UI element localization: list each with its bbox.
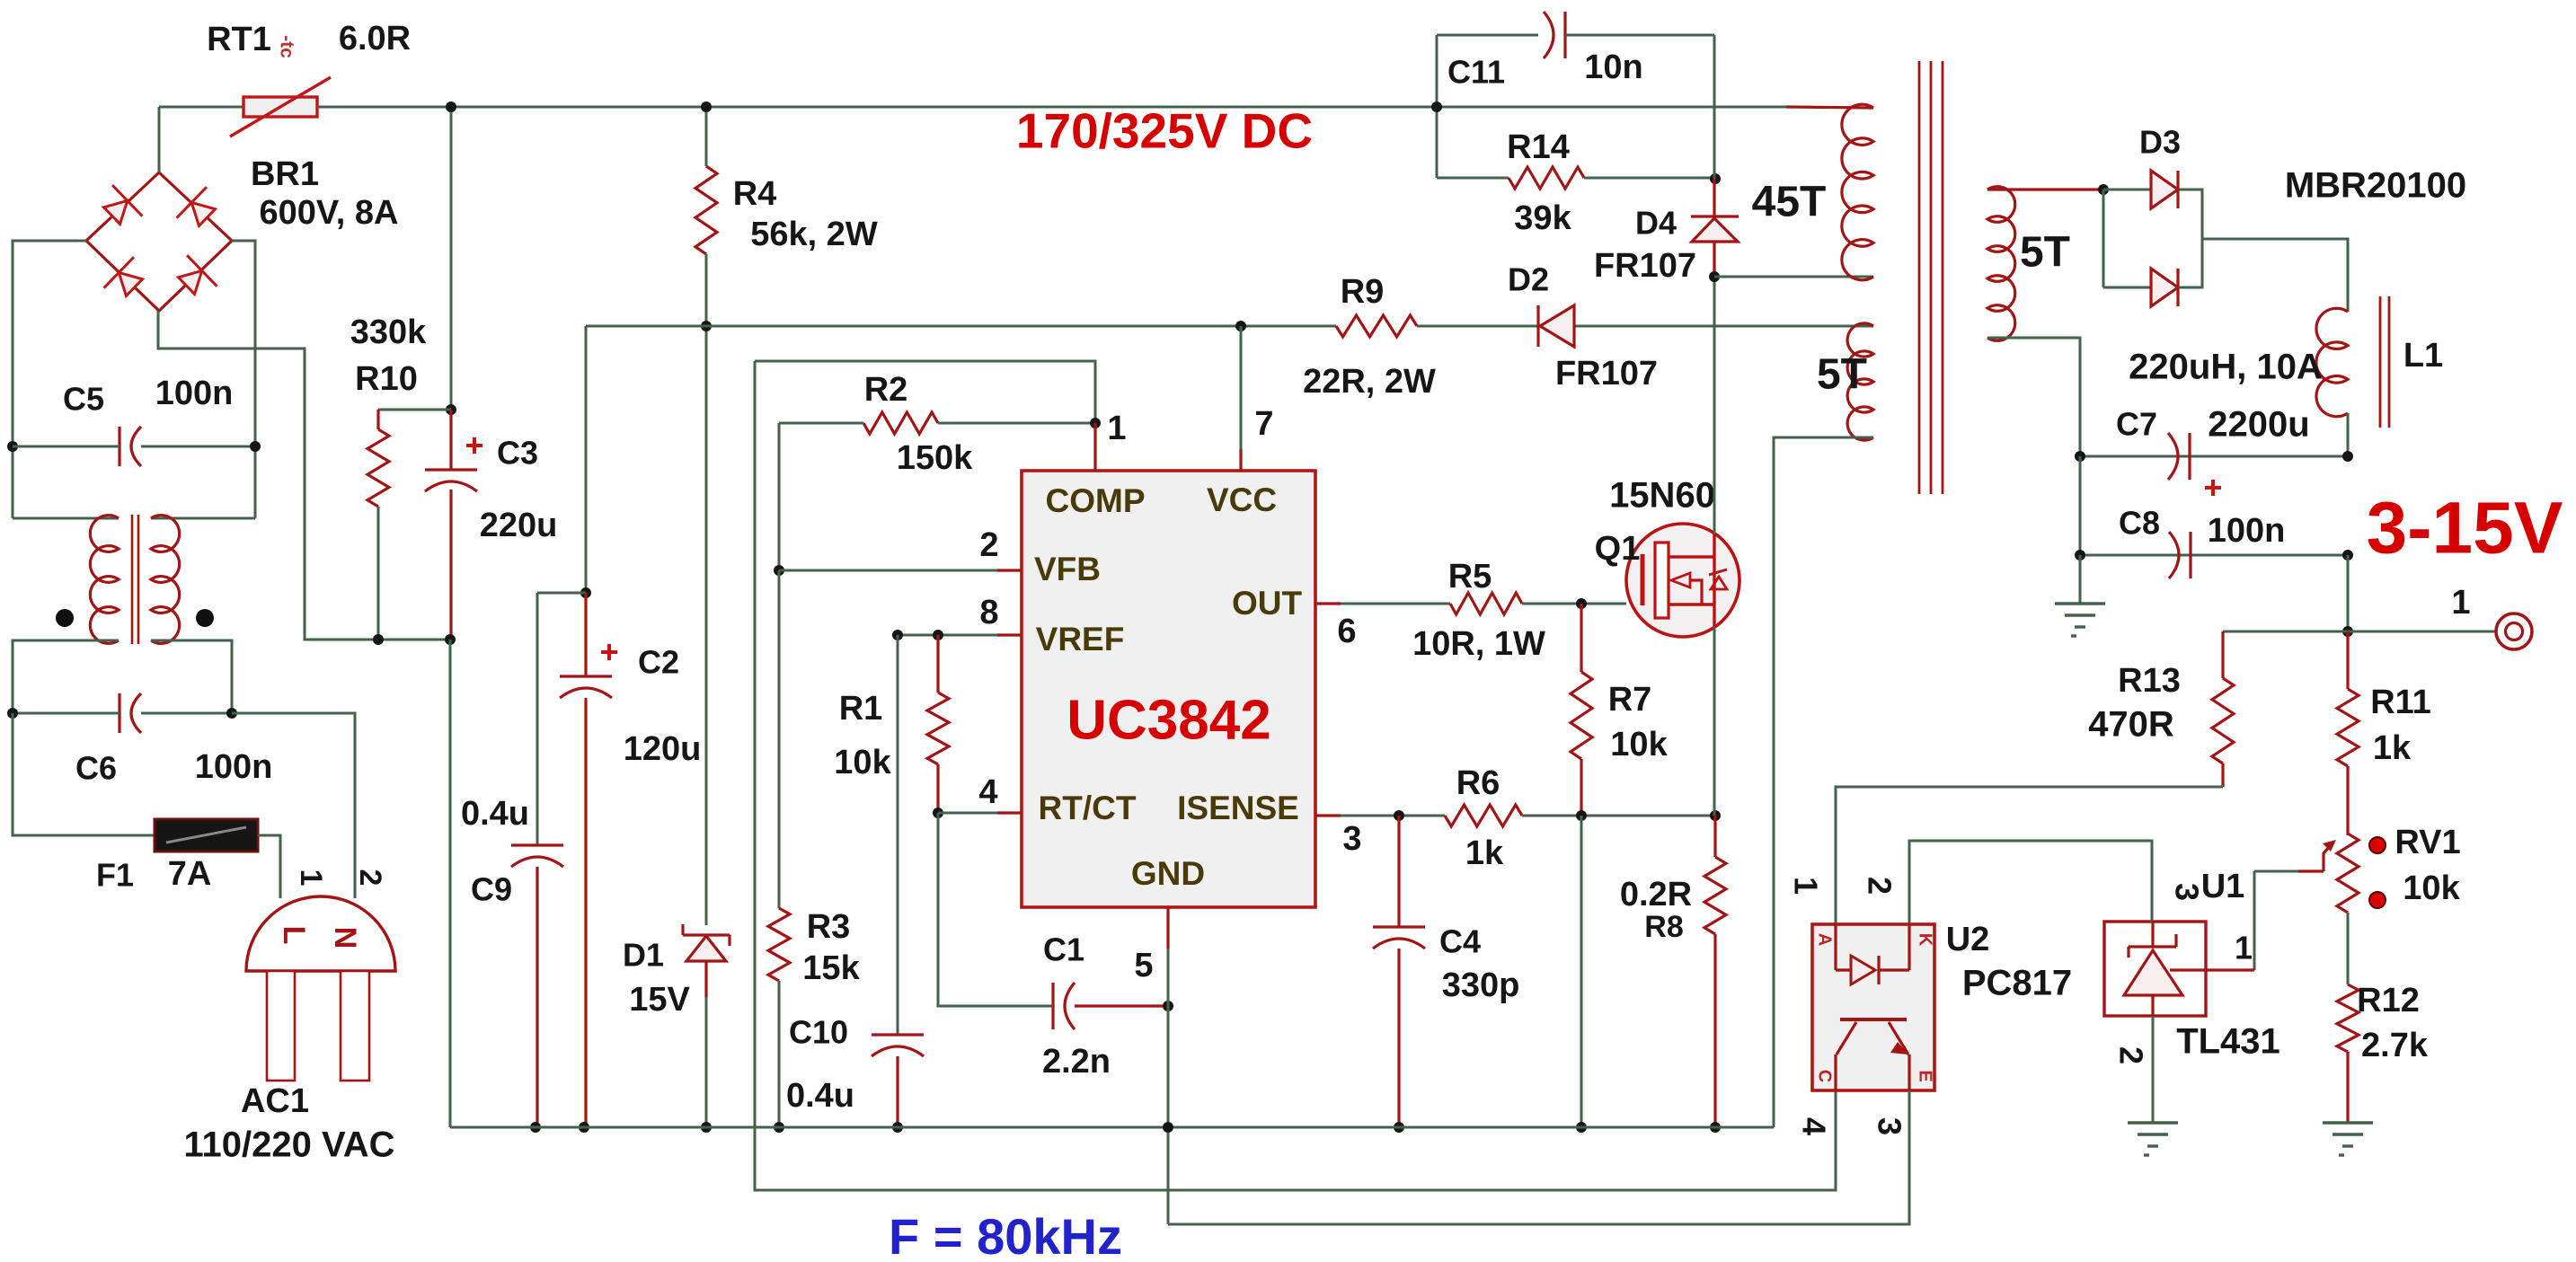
wire: C6 left down to fuse xyxy=(13,713,155,835)
resistor R11 xyxy=(2337,689,2359,766)
node snubber on rail xyxy=(1431,101,1442,112)
svg-text:2.2n: 2.2n xyxy=(1042,1043,1111,1081)
svg-text:R7: R7 xyxy=(1608,681,1652,719)
zener diode D1 xyxy=(686,936,726,961)
wire: R2 left to VFB xyxy=(778,423,781,570)
svg-text:C: C xyxy=(1815,1070,1835,1082)
svg-text:0.2R: 0.2R xyxy=(1620,876,1692,913)
wire: TL431 pin2 to ground xyxy=(2152,1016,2155,1123)
svg-text:100n: 100n xyxy=(195,748,273,786)
svg-text:VFB: VFB xyxy=(1034,551,1101,587)
wire: L1 to C7 rail xyxy=(2347,413,2350,456)
svg-text:10k: 10k xyxy=(834,744,891,781)
node R3 bottom xyxy=(774,1122,784,1133)
wire: to secondary ground xyxy=(2079,555,2082,604)
svg-text:1: 1 xyxy=(2235,930,2253,966)
thermistor RT1 xyxy=(243,97,317,117)
svg-text:U2: U2 xyxy=(1946,921,1990,958)
svg-text:D4: D4 xyxy=(1635,205,1677,242)
svg-text:1k: 1k xyxy=(2373,729,2412,767)
svg-text:10n: 10n xyxy=(1584,49,1642,86)
node C3 bottom xyxy=(445,634,456,645)
svg-text:10k: 10k xyxy=(2403,869,2460,907)
svg-text:Q1: Q1 xyxy=(1595,530,1641,568)
svg-text:C3: C3 xyxy=(497,435,538,472)
svg-text:150k: 150k xyxy=(897,439,973,477)
svg-text:AC1: AC1 xyxy=(241,1082,309,1120)
node R4 bottom xyxy=(701,321,712,331)
svg-text:15k: 15k xyxy=(802,949,860,987)
transformer aux 5T winding xyxy=(1847,323,1873,440)
diode D3a xyxy=(2103,189,2151,191)
svg-text:15V: 15V xyxy=(629,981,690,1019)
transformer primary 45T winding xyxy=(1842,104,1873,280)
svg-text:2: 2 xyxy=(2112,1046,2149,1064)
svg-text:RV1: RV1 xyxy=(2395,824,2460,861)
svg-text:1: 1 xyxy=(1787,877,1824,895)
node R7 rail xyxy=(1576,1122,1587,1133)
wire: fuse to plug pin1 xyxy=(258,835,280,898)
svg-text:PC817: PC817 xyxy=(1962,964,2072,1003)
svg-text:0.4u: 0.4u xyxy=(461,795,529,833)
svg-text:VCC: VCC xyxy=(1207,481,1277,518)
wire: C9 branch xyxy=(537,592,586,595)
node output xyxy=(2342,626,2353,637)
svg-text:R12: R12 xyxy=(2357,982,2420,1019)
resistor R2 xyxy=(863,412,938,434)
wire: R3 bottom xyxy=(778,981,781,1127)
capacitor C7 xyxy=(2188,433,2191,480)
wire: C10 vertical xyxy=(897,635,899,1035)
potentiometer RV1 xyxy=(2337,834,2359,913)
wire: output to terminal xyxy=(2348,631,2495,633)
wire: VFB to pin2 xyxy=(779,569,1022,572)
svg-text:C7: C7 xyxy=(2116,406,2157,443)
fuse F1 xyxy=(155,819,258,852)
wire: choke left bottom to C6 xyxy=(13,640,119,713)
svg-text:100n: 100n xyxy=(155,375,234,412)
svg-text:110/220 VAC: 110/220 VAC xyxy=(184,1125,395,1165)
svg-text:C4: C4 xyxy=(1439,923,1481,960)
node C4 top xyxy=(1394,810,1404,821)
wire: C7 rail xyxy=(2080,455,2348,458)
wire: drain vertical xyxy=(1713,278,1716,534)
UC3842 pin7 stub xyxy=(1240,326,1243,449)
bridge diode top-right xyxy=(177,187,223,233)
svg-text:COMP: COMP xyxy=(1046,482,1146,519)
svg-text:4: 4 xyxy=(1795,1117,1832,1135)
diode D3b xyxy=(2151,269,2178,306)
svg-text:5T: 5T xyxy=(1817,351,1867,399)
node R10/C3 top xyxy=(446,404,456,415)
wire: DC- down to ground rail xyxy=(449,640,452,1127)
wire: R6 to source node xyxy=(1522,815,1715,817)
node rail/R10 column xyxy=(446,101,456,112)
ground TL431 xyxy=(2128,1121,2178,1124)
bridge diode top-left xyxy=(97,185,143,231)
bridge diode bottom-left xyxy=(104,257,150,303)
wire: D3 lower branch xyxy=(2102,190,2105,287)
svg-text:R13: R13 xyxy=(2118,662,2181,700)
node D4 top xyxy=(1710,173,1721,184)
wire: D3 out to L1 xyxy=(2202,239,2348,312)
resistor R7 xyxy=(1571,672,1592,759)
wire: C8 to output node xyxy=(2347,555,2350,631)
diode D2 FR107 xyxy=(1536,305,1539,347)
wire: TL431 pin3 to PC817 pin2 xyxy=(1909,841,2152,924)
node C9 bottom xyxy=(530,1122,541,1133)
svg-text:L1: L1 xyxy=(2403,337,2443,375)
svg-text:C10: C10 xyxy=(789,1014,848,1051)
UC3842 pin6 stub xyxy=(1315,602,1341,605)
UC3842 pin4 stub xyxy=(997,811,1022,814)
node gate/R7 xyxy=(1576,598,1587,609)
svg-text:2: 2 xyxy=(353,869,387,887)
node R10 bottom xyxy=(373,634,384,645)
node D3 input xyxy=(2098,184,2109,195)
wire: C8 rail xyxy=(2080,554,2348,557)
svg-text:1: 1 xyxy=(2451,584,2470,622)
UC3842 pin1 stub xyxy=(1093,423,1096,471)
capacitor C11 xyxy=(1437,34,1538,37)
svg-text:K: K xyxy=(1916,933,1935,947)
node C4 bottom xyxy=(1394,1122,1404,1133)
capacitor C5 xyxy=(118,427,120,466)
label C3 plus xyxy=(466,444,482,447)
svg-text:N: N xyxy=(328,927,362,949)
svg-text:C2: C2 xyxy=(638,644,679,681)
svg-text:3: 3 xyxy=(2168,883,2205,901)
wire: bridge right corner down to choke right xyxy=(232,241,255,518)
ground R12 xyxy=(2323,1121,2373,1124)
wire: VCC line xyxy=(586,325,1336,328)
capacitor C4 xyxy=(1373,925,1425,928)
capacitor C3 xyxy=(425,468,477,471)
capacitor C10 xyxy=(872,1033,924,1036)
svg-text:GND: GND xyxy=(1131,855,1205,892)
svg-text:RT1: RT1 xyxy=(207,21,271,58)
node R8 bottom xyxy=(1710,1122,1721,1133)
wire: bridge bottom corner to DC- column xyxy=(158,311,450,640)
TL431 pin1 wire xyxy=(2170,968,2254,971)
capacitor C2 xyxy=(560,675,612,677)
svg-text:C1: C1 xyxy=(1043,931,1084,968)
node R4 top xyxy=(701,101,712,112)
svg-text:2: 2 xyxy=(979,526,998,564)
svg-text:C8: C8 xyxy=(2119,505,2160,542)
bridge diode bottom-right xyxy=(172,255,217,301)
svg-text:45T: 45T xyxy=(1752,179,1827,226)
wire: GND pin5 to rail and emitter rail xyxy=(1167,1006,1170,1224)
svg-text:R6: R6 xyxy=(1456,764,1500,802)
AC plug prong 1 xyxy=(267,971,295,1081)
capacitor C8 xyxy=(2189,532,2191,578)
RV1 terminal dot lower xyxy=(2369,892,2386,908)
svg-text:D1: D1 xyxy=(623,937,664,974)
svg-text:R11: R11 xyxy=(2370,684,2431,721)
svg-text:7A: 7A xyxy=(168,855,212,893)
resistor R1 xyxy=(927,693,949,764)
svg-text:15N60: 15N60 xyxy=(1609,476,1715,516)
wire: RT/CT pin line xyxy=(938,812,1022,815)
svg-text:170/325V DC: 170/325V DC xyxy=(1016,103,1313,159)
node VREF/R1 xyxy=(933,630,943,640)
UC3842 pin3 stub xyxy=(1315,814,1341,816)
wire: C11 right vertical xyxy=(1713,35,1716,179)
resistor R5 xyxy=(1450,593,1522,614)
wire: R5 to gate xyxy=(1522,603,1626,605)
choke phase dot left xyxy=(56,609,74,627)
svg-text:R9: R9 xyxy=(1341,273,1385,311)
bridge rectifier BR1 diamond xyxy=(86,172,232,311)
svg-text:L: L xyxy=(277,926,311,945)
svg-text:8: 8 xyxy=(979,594,998,631)
wire: choke right bottom to C6 right xyxy=(151,640,232,713)
svg-text:470R: 470R xyxy=(2088,705,2174,745)
wire: C2/C9 top vertical xyxy=(585,326,588,593)
svg-text:3: 3 xyxy=(1342,820,1361,858)
wire: DC+ rail to R10/C3 xyxy=(450,107,453,410)
capacitor C9 xyxy=(511,843,563,846)
wire: R13 bottom to PC817 pin1 xyxy=(1836,787,2223,924)
node C7 right xyxy=(2342,451,2353,462)
node C7 left xyxy=(2075,451,2085,462)
node C10 bottom xyxy=(892,1122,903,1133)
node C2 top xyxy=(580,587,591,598)
optocoupler U2 PC817 box xyxy=(1812,924,1934,1090)
svg-text:R3: R3 xyxy=(807,908,851,946)
choke core xyxy=(131,515,134,644)
label C7 plus xyxy=(2205,486,2221,490)
svg-text:D2: D2 xyxy=(1508,261,1549,298)
wire: ISENSE/R6 line xyxy=(1341,815,1445,817)
common-mode choke left winding xyxy=(90,516,119,644)
svg-text:F = 80kHz: F = 80kHz xyxy=(889,1208,1122,1262)
svg-text:5T: 5T xyxy=(2020,229,2070,277)
resistor R14 xyxy=(1509,167,1584,189)
svg-text:U1: U1 xyxy=(2201,868,2245,905)
node C8 right xyxy=(2342,550,2353,560)
node VFB xyxy=(774,565,784,576)
resistor R6 xyxy=(1445,805,1522,826)
svg-text:C11: C11 xyxy=(1447,54,1505,91)
svg-text:R1: R1 xyxy=(839,690,883,728)
svg-text:ISENSE: ISENSE xyxy=(1177,790,1299,826)
wire: RV1 to R12 xyxy=(2347,913,2350,984)
svg-text:330p: 330p xyxy=(1442,966,1520,1004)
svg-text:5: 5 xyxy=(1134,947,1153,984)
svg-text:1: 1 xyxy=(294,869,328,887)
wire: C1 loop xyxy=(938,813,1053,1006)
wire: snubber left vertical xyxy=(1436,35,1438,178)
resistor R8 xyxy=(1704,857,1726,934)
svg-text:D3: D3 xyxy=(2139,124,2181,161)
TL431 symbol xyxy=(2129,945,2176,948)
transformer core xyxy=(1918,61,1921,494)
node R7 bottom xyxy=(1576,810,1587,821)
terminal output xyxy=(2496,613,2532,649)
node C6 right xyxy=(226,708,237,719)
svg-text:120u: 120u xyxy=(624,730,702,768)
svg-text:330k: 330k xyxy=(350,313,427,351)
PC817 LED xyxy=(1834,924,1837,970)
resistor R4 xyxy=(695,166,717,254)
RV1 terminal dot upper xyxy=(2369,837,2386,853)
svg-text:OUT: OUT xyxy=(1232,585,1303,622)
node C5 right xyxy=(250,441,261,452)
node VCC pin7 junction xyxy=(1235,321,1246,331)
resistor R9 xyxy=(1336,315,1417,337)
wire: COMP loop top xyxy=(755,361,1095,423)
wire: VREF line xyxy=(898,634,1022,637)
wire: bridge left corner to C5 left / choke xyxy=(13,241,86,446)
svg-text:RT/CT: RT/CT xyxy=(1039,790,1137,826)
svg-text:-tc: -tc xyxy=(276,35,297,58)
PC817 transistor xyxy=(1840,1018,1907,1021)
svg-text:VREF: VREF xyxy=(1036,621,1125,657)
svg-text:A: A xyxy=(1815,933,1835,946)
node D1 bottom xyxy=(701,1122,712,1133)
svg-text:R2: R2 xyxy=(864,371,908,409)
svg-text:C9: C9 xyxy=(471,871,512,908)
choke phase dot right xyxy=(196,609,214,627)
UC3842 pin5 stub xyxy=(1166,907,1169,949)
AC plug prong 2 xyxy=(341,971,369,1081)
node source/R8 xyxy=(1710,810,1721,821)
svg-text:6.0R: 6.0R xyxy=(339,20,411,57)
svg-text:C5: C5 xyxy=(63,381,104,418)
transistor Q1 15N60 xyxy=(1626,524,1739,637)
wire: secondary bottom lead xyxy=(1987,338,2080,456)
node COMP pin1 xyxy=(1090,418,1101,428)
svg-text:600V, 8A: 600V, 8A xyxy=(260,194,399,232)
op-amp U3 UC3842 box xyxy=(1022,471,1315,907)
wire: C6 right to plug pin2 xyxy=(232,713,355,898)
diode D4 FR107 xyxy=(1713,179,1715,216)
svg-text:3: 3 xyxy=(1871,1117,1908,1135)
node C8 left xyxy=(2075,550,2085,560)
svg-text:3-15V: 3-15V xyxy=(2367,488,2563,569)
svg-text:39k: 39k xyxy=(1514,199,1571,237)
svg-text:220uH, 10A: 220uH, 10A xyxy=(2129,348,2323,387)
svg-text:1k: 1k xyxy=(1465,834,1504,872)
svg-text:2200u: 2200u xyxy=(2208,405,2309,445)
common-mode choke right winding xyxy=(151,516,180,644)
transformer secondary 5T winding xyxy=(1987,187,2015,341)
node D4 anode / drain node xyxy=(1709,271,1720,282)
node C2 bottom xyxy=(579,1122,589,1133)
UC3842 pin8 stub xyxy=(997,633,1022,636)
wire: R10 bottom lead xyxy=(377,507,380,640)
wire: R14 left lead xyxy=(1437,177,1509,180)
wire: output node to R13 xyxy=(2223,631,2348,633)
node C5 left xyxy=(7,441,18,452)
wire: rail to R4 xyxy=(705,107,708,166)
svg-text:22R, 2W: 22R, 2W xyxy=(1303,363,1436,401)
wire: C8 left vertical xyxy=(2079,456,2082,555)
svg-text:F1: F1 xyxy=(96,857,134,894)
svg-text:FR107: FR107 xyxy=(1555,355,1658,393)
UC3842 pin2 stub xyxy=(997,569,1022,571)
svg-text:R14: R14 xyxy=(1507,128,1570,166)
AC plug AC1 body xyxy=(246,896,395,971)
svg-text:7: 7 xyxy=(1254,405,1273,443)
svg-text:10k: 10k xyxy=(1610,726,1668,763)
svg-text:TL431: TL431 xyxy=(2176,1022,2280,1062)
wire: AC bridge top-left vertical to RT1 xyxy=(158,107,161,172)
svg-text:E: E xyxy=(1916,1070,1935,1081)
wire: aux bottom lead xyxy=(1774,437,1873,1127)
inductor L1 xyxy=(2316,308,2348,417)
shunt regulator U1 TL431 box xyxy=(2104,922,2206,1016)
svg-text:R10: R10 xyxy=(355,360,418,398)
svg-text:C6: C6 xyxy=(75,750,117,787)
svg-text:4: 4 xyxy=(978,773,997,811)
svg-text:10R, 1W: 10R, 1W xyxy=(1412,625,1545,663)
svg-text:BR1: BR1 xyxy=(251,155,319,193)
svg-text:R4: R4 xyxy=(733,175,777,213)
wire: R4 to VCC line and down to D1 xyxy=(705,254,708,326)
svg-text:UC3842: UC3842 xyxy=(1067,689,1270,751)
capacitor C1 xyxy=(1051,983,1054,1029)
svg-text:R8: R8 xyxy=(1644,910,1683,944)
capacitor C6 xyxy=(118,693,120,733)
node VREF/C10 xyxy=(892,630,903,640)
wire: primary ground rail xyxy=(450,1126,1774,1129)
wire: PC817 collector rail xyxy=(755,361,1836,1190)
resistor R12 xyxy=(2337,984,2359,1052)
svg-text:R5: R5 xyxy=(1448,558,1492,596)
node C1 right xyxy=(1163,1001,1173,1011)
resistor R13 xyxy=(2212,678,2234,763)
node RT/CT xyxy=(933,808,943,818)
node GND rail xyxy=(1163,1122,1173,1133)
resistor R3 xyxy=(768,908,790,981)
wire: top DC+ rail xyxy=(317,106,1786,109)
wire: RV1 wiper xyxy=(2254,870,2298,873)
svg-text:FR107: FR107 xyxy=(1594,247,1696,285)
svg-text:MBR20100: MBR20100 xyxy=(2285,166,2466,206)
svg-text:6: 6 xyxy=(1337,613,1356,650)
svg-text:1: 1 xyxy=(1107,410,1126,447)
svg-text:56k, 2W: 56k, 2W xyxy=(750,216,878,253)
wire: R10 top lead xyxy=(378,409,451,411)
resistor R10 xyxy=(367,429,389,507)
wire: OUT to R5 xyxy=(1341,603,1450,605)
label C2 plus xyxy=(601,650,617,654)
svg-text:0.4u: 0.4u xyxy=(786,1077,854,1115)
node C6 left xyxy=(7,708,18,719)
wire: drain node to primary bottom xyxy=(1714,276,1873,278)
wire: secondary top lead xyxy=(1987,188,2103,190)
svg-text:2.7k: 2.7k xyxy=(2361,1027,2429,1064)
ground secondary xyxy=(2055,602,2105,605)
wire: R14 right lead xyxy=(1584,177,1715,180)
svg-text:100n: 100n xyxy=(2208,512,2286,550)
svg-text:2: 2 xyxy=(1861,877,1898,895)
wire: R7 node to ground rail xyxy=(1580,816,1583,1127)
wire: VFB down to R3 xyxy=(778,570,781,908)
svg-text:220u: 220u xyxy=(480,507,558,544)
wire: PC817 pin3 emitter rail xyxy=(1168,1090,1909,1224)
